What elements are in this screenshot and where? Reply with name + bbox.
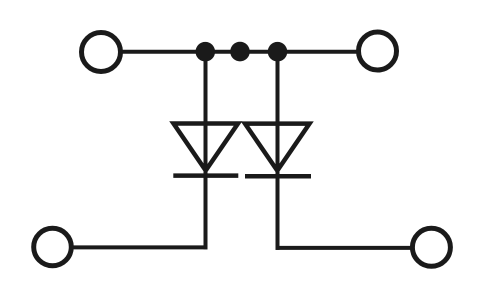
junction dot left bbox=[196, 42, 216, 62]
wire right vertical bbox=[276, 52, 280, 250]
diode D2 cathode bar bbox=[245, 174, 311, 179]
diode D2 triangle bbox=[245, 124, 310, 171]
diode D1 cathode bar bbox=[173, 173, 238, 178]
diode D1 triangle bbox=[174, 124, 239, 171]
junction dot right bbox=[268, 42, 288, 62]
wire bottom-left bbox=[72, 245, 208, 249]
wire bottom-right bbox=[276, 246, 412, 250]
wire top bus bbox=[122, 50, 357, 54]
terminal circle bottom-left bbox=[34, 228, 72, 266]
terminal circle top-left bbox=[82, 33, 121, 72]
wire left vertical bbox=[204, 52, 208, 250]
terminal circle top-right bbox=[359, 32, 397, 70]
terminal circle bottom-right bbox=[412, 228, 450, 266]
junction dot middle bbox=[230, 42, 250, 62]
